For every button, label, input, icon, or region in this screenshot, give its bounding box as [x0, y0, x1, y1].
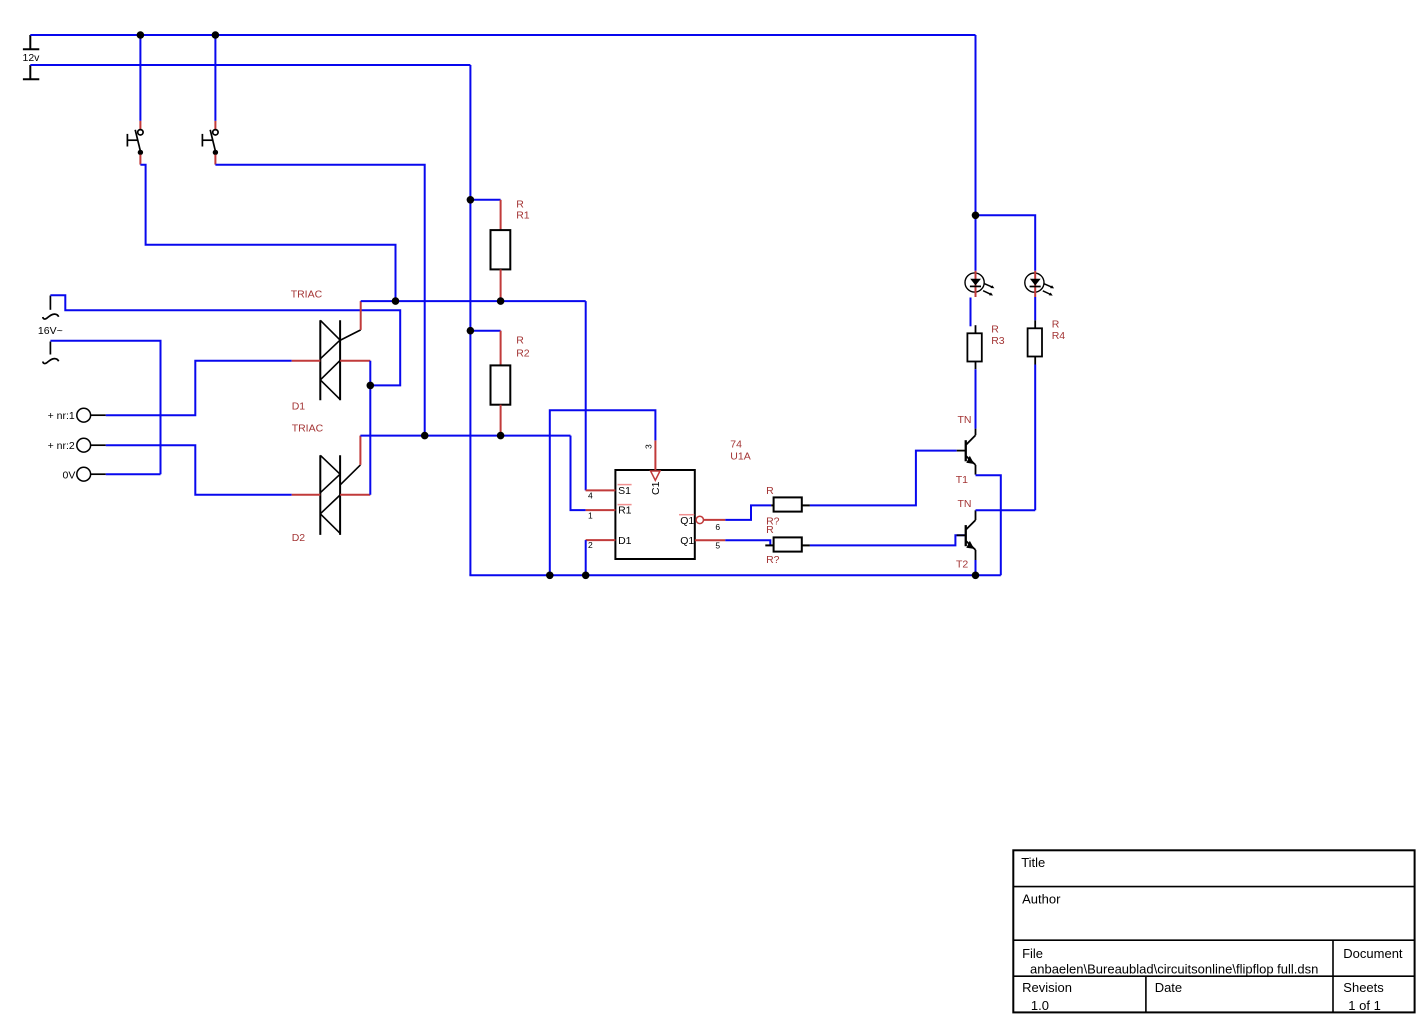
svg-text:R4: R4 — [1052, 330, 1066, 342]
wire 0V vertical x=470 — [469, 65, 471, 575]
wire switch1 top — [139, 35, 141, 121]
svg-text:6: 6 — [715, 522, 720, 532]
svg-text:Date: Date — [1155, 980, 1182, 995]
svg-text:Revision: Revision — [1022, 980, 1072, 995]
AC terminal 1 (16V~) — [43, 296, 59, 320]
node C1/0V rail — [546, 572, 554, 580]
svg-text:R: R — [991, 323, 999, 335]
svg-text:TRIAC: TRIAC — [292, 423, 324, 435]
svg-text:1 of 1: 1 of 1 — [1348, 998, 1381, 1013]
node top rail / switch2 — [212, 31, 220, 39]
node T2 emitter/0V rail — [972, 572, 980, 580]
wire R? to T2 base — [810, 535, 965, 545]
svg-text:R1: R1 — [516, 209, 530, 221]
transistor T1 — [957, 429, 976, 475]
wire + nr:2 to D2 MT1 — [106, 445, 292, 495]
switch S1 — [127, 121, 143, 165]
svg-text:R1: R1 — [618, 505, 632, 517]
LED LED1 — [965, 271, 994, 297]
svg-text:+ nr:2: + nr:2 — [48, 440, 75, 452]
pin C1 (3) clock — [644, 440, 663, 495]
AC terminal 2 — [43, 342, 59, 364]
resistor R? (upper) — [771, 497, 810, 511]
wire 0V rail to R2 top — [470, 330, 500, 332]
svg-text:R2: R2 — [516, 347, 530, 359]
svg-text:R3: R3 — [991, 335, 1005, 347]
svg-text:Q1: Q1 — [680, 535, 694, 547]
wire T2 collector to R4 — [976, 509, 1036, 511]
pin Q1bar (6) — [679, 515, 725, 532]
svg-text:C1: C1 — [650, 481, 662, 495]
node top rail / switch1 — [137, 31, 145, 39]
resistor R3 — [967, 325, 981, 369]
svg-text:TRIAC: TRIAC — [291, 289, 323, 301]
node 0V/R1 — [467, 196, 475, 204]
resistor R? (lower) — [765, 537, 810, 551]
wire + nr:1 to D1 MT1 — [106, 361, 292, 416]
wire LED2 to R4 — [1034, 297, 1036, 320]
wire pin6 to R? — [725, 505, 771, 520]
wire +12V branch to LED2 — [976, 215, 1036, 270]
port + nr:2 — [77, 438, 106, 452]
wire 0V bottom rail — [469, 574, 1000, 576]
port 0V — [77, 467, 106, 481]
wire switch1 to D1 gate node — [140, 165, 395, 301]
node MT junction — [367, 382, 375, 390]
svg-text:T2: T2 — [956, 559, 968, 571]
IC U1A box — [615, 470, 694, 559]
wire switch2 to D2 gate node — [215, 165, 424, 436]
battery 12v cell 2 — [23, 65, 39, 79]
svg-text:T1: T1 — [956, 474, 968, 486]
svg-text:File: File — [1022, 946, 1043, 961]
node D1/0V rail — [582, 572, 590, 580]
svg-text:1.0: 1.0 — [1031, 998, 1049, 1013]
wire gate node D2 y=435.6 — [360, 435, 570, 437]
wire pin5 to R? — [725, 540, 770, 545]
svg-text:Q1: Q1 — [680, 515, 694, 527]
svg-text:R?: R? — [766, 554, 780, 566]
wire switch2 top — [214, 35, 216, 121]
svg-text:74: 74 — [730, 438, 742, 450]
triac D1 — [292, 301, 371, 400]
LED LED2 — [1025, 271, 1054, 297]
resistor R2 — [491, 331, 511, 436]
svg-text:D1: D1 — [292, 401, 306, 413]
wire D1 MT2 to D2 MT2 — [369, 361, 371, 495]
svg-text:D1: D1 — [618, 535, 632, 547]
svg-text:16V~: 16V~ — [38, 325, 63, 337]
triac D2 — [292, 436, 371, 535]
svg-text:Document: Document — [1343, 946, 1403, 961]
wire +12V right drop x=975 — [975, 35, 977, 215]
svg-text:+ nr:1: + nr:1 — [48, 410, 75, 422]
node R2/gate — [497, 432, 505, 440]
node R1/gate — [497, 297, 505, 305]
wire +12V top rail — [30, 34, 975, 36]
svg-text:R: R — [766, 485, 774, 497]
node switch1/gate — [392, 297, 400, 305]
wire 0V mid rail — [30, 64, 470, 66]
svg-text:Author: Author — [1022, 892, 1061, 907]
wire AC1 to TRIAC MT node — [50, 295, 400, 385]
node +12V LED branch — [972, 212, 980, 220]
port + nr:1 — [77, 408, 106, 422]
svg-text:12v: 12v — [23, 52, 41, 64]
wire +12V to LED1 — [975, 215, 977, 270]
svg-text:anbaelen\Bureaublad\circuitson: anbaelen\Bureaublad\circuitsonline\flipf… — [1030, 961, 1318, 976]
resistor R1 — [491, 200, 511, 301]
wire AC2 to 0V port — [50, 341, 160, 474]
wire D1 pin to 0V rail — [585, 540, 587, 575]
svg-text:R: R — [1052, 318, 1060, 330]
svg-text:5: 5 — [715, 541, 720, 551]
pin S1 (4) — [586, 485, 632, 501]
wire R3 to T1 collector — [975, 369, 977, 428]
svg-text:TN: TN — [958, 498, 972, 510]
pin Q1 (5) — [680, 535, 725, 551]
svg-text:S1: S1 — [618, 485, 631, 497]
pin D1 (2) — [586, 535, 632, 550]
resistor R4 — [1028, 320, 1042, 364]
svg-text:R: R — [516, 335, 524, 347]
svg-text:0V: 0V — [63, 469, 76, 481]
wire T1 emitter to 0V rail — [976, 475, 1001, 575]
wire C1 pin to 0V rail — [550, 410, 656, 575]
transistor T2 — [957, 510, 976, 560]
node 0V/R2 — [467, 327, 475, 335]
wire R? to T1 base — [810, 451, 957, 506]
svg-text:2: 2 — [588, 540, 593, 550]
wire LED1 to R3 — [970, 298, 972, 327]
svg-text:1: 1 — [588, 510, 593, 520]
wire gate node D2 to R1 pin — [571, 436, 586, 511]
svg-text:R: R — [766, 524, 774, 536]
svg-text:TN: TN — [958, 414, 972, 426]
title block frame — [1013, 850, 1414, 1012]
wire gate node D1 y=301 — [361, 300, 586, 302]
pin R1 (1) — [586, 505, 632, 521]
wire T2 emitter to 0V rail — [975, 560, 977, 575]
switch S2 — [202, 121, 218, 165]
svg-text:4: 4 — [588, 491, 593, 501]
battery 12v cell 1 — [23, 35, 39, 49]
wire 0V rail to R1 top — [470, 199, 500, 201]
svg-text:U1A: U1A — [730, 450, 750, 462]
wire R4 to T2 collector — [1034, 365, 1036, 511]
svg-text:Title: Title — [1021, 855, 1045, 870]
node switch2/gate — [421, 432, 429, 440]
svg-text:Sheets: Sheets — [1343, 980, 1384, 995]
svg-text:3: 3 — [644, 444, 654, 449]
wire 0V port to AC2 — [106, 473, 161, 475]
wire gate node D1 vertical to S1 pin — [585, 301, 587, 490]
svg-text:D2: D2 — [292, 532, 306, 544]
